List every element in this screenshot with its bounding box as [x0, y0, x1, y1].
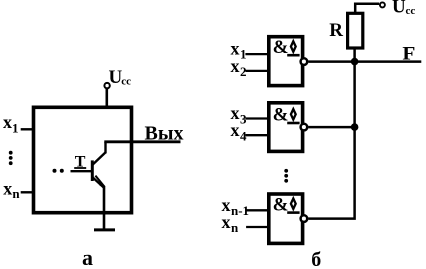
gate U2 outline (& open-collector) [269, 103, 303, 152]
svg-text:cc: cc [121, 75, 131, 87]
node junction dot middle [351, 123, 359, 131]
output bubble (U1) [301, 58, 308, 65]
open-collector diamond symbol (U1) [287, 41, 299, 55]
wire U2 output to bus [308, 126, 354, 129]
ground (a) [94, 228, 115, 231]
wire U1 output to bus / F line [308, 60, 421, 63]
label x1 (b) [231, 39, 247, 62]
wire xn input (b) [246, 226, 268, 228]
dots before transistor base [53, 169, 64, 173]
gate U3 outline (& open-collector) [269, 194, 303, 243]
wire xn-1 input (b) [246, 209, 268, 211]
wire x2 input (b) [245, 70, 268, 72]
resistor R [348, 13, 363, 48]
open-collector diamond symbol (U3) [287, 199, 299, 213]
svg-text:б: б [311, 249, 321, 269]
svg-text:U: U [392, 0, 406, 18]
wire x1 input stub (a) [21, 128, 34, 130]
svg-text:x: x [231, 120, 240, 140]
svg-text:а: а [82, 245, 93, 269]
gate U1 outline (& open-collector) [269, 37, 303, 86]
label xn (b) [222, 212, 240, 235]
svg-text:x: x [3, 112, 12, 132]
wire emitter to ground [103, 186, 106, 230]
label x4 (b) [231, 120, 248, 143]
svg-text:x: x [3, 178, 12, 198]
svg-text:1: 1 [12, 120, 19, 135]
ellipsis dots inputs (a) [9, 151, 13, 165]
wire collector to output Вых [104, 140, 180, 143]
svg-text:R: R [329, 20, 343, 41]
wire x4 input (b) [245, 134, 268, 136]
label xn (a) [3, 178, 20, 201]
output bubble (U3) [301, 215, 308, 222]
label xn-1 (b) [222, 195, 250, 218]
wire x1 input (b) [245, 53, 268, 55]
label Ucc (a) [109, 67, 132, 88]
wire Ucc to block top (a) [106, 89, 109, 108]
svg-text:F: F [402, 43, 415, 64]
node junction dot top [351, 58, 359, 66]
svg-text:&: & [273, 37, 289, 58]
transistor T [71, 142, 106, 189]
wire U3 output to bus corner and vertical bus [308, 49, 354, 219]
label T [74, 153, 86, 170]
svg-text:n: n [231, 220, 239, 235]
block outline (a) [34, 107, 132, 212]
output bubble (U2) [301, 124, 308, 131]
label x1 (a) [3, 112, 19, 135]
wire x3 input (b) [245, 117, 268, 119]
svg-text:x: x [231, 56, 240, 76]
wire xn input stub (a) [21, 191, 34, 193]
label Ucc (b) [392, 0, 415, 18]
svg-text:x: x [222, 212, 231, 232]
wire resistor top to Ucc [355, 4, 379, 13]
svg-text:n: n [12, 186, 20, 201]
label x3 (b) [231, 103, 248, 127]
svg-text:Вых: Вых [145, 122, 184, 144]
ellipsis dots gates (b) [284, 169, 288, 183]
svg-text:&: & [273, 194, 289, 215]
power Ucc terminal (a) [104, 83, 109, 88]
power Ucc terminal (b) [380, 2, 385, 7]
label x2 (b) [231, 56, 247, 79]
open-collector diamond symbol (U2) [287, 109, 299, 123]
svg-text:&: & [273, 104, 289, 125]
svg-text:cc: cc [406, 5, 416, 17]
